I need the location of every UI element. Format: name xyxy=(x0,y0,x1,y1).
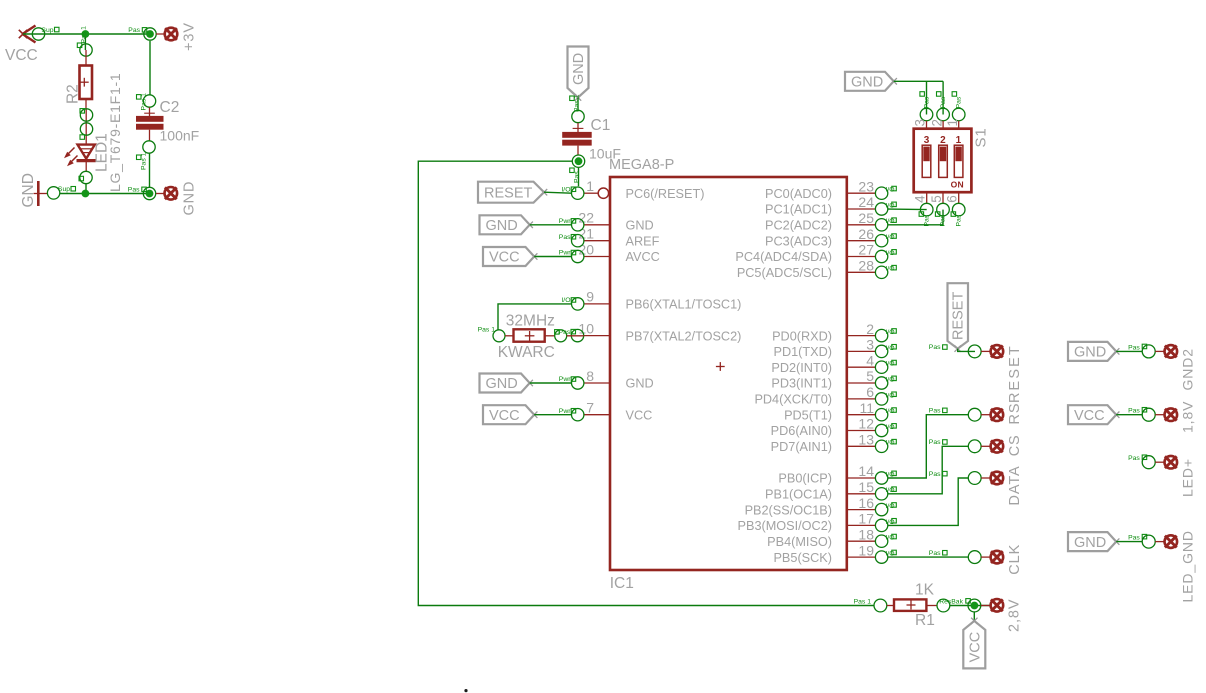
IC1 right pin 16 PB2(SS/OC1B) xyxy=(745,495,897,518)
svg-text:GND2: GND2 xyxy=(1180,348,1196,391)
svg-text:2: 2 xyxy=(866,321,874,337)
svg-text:Pas: Pas xyxy=(1128,535,1140,542)
svg-text:17: 17 xyxy=(858,511,874,527)
svg-text:22: 22 xyxy=(578,210,594,226)
svg-text:Pas: Pas xyxy=(924,96,931,108)
svg-text:2,8V: 2,8V xyxy=(1007,599,1023,632)
wire pin17 to DATA pad xyxy=(888,478,969,525)
svg-text:I/O: I/O xyxy=(886,187,895,194)
pin circle +3V pad xyxy=(128,27,156,40)
S1 label ON xyxy=(951,180,964,190)
svg-text:+3V: +3V xyxy=(181,22,197,51)
svg-text:RESET: RESET xyxy=(951,292,967,340)
wire VCC flag to pin20 xyxy=(534,256,571,258)
svg-text:Pas 1: Pas 1 xyxy=(854,598,872,605)
svg-text:27: 27 xyxy=(858,242,874,258)
net flag GND pin22 xyxy=(480,215,533,234)
svg-text:GND: GND xyxy=(626,219,654,233)
svg-text:I/O: I/O xyxy=(886,345,895,352)
IC origin cross xyxy=(716,362,725,371)
LED1 emission arrows xyxy=(64,148,78,167)
svg-text:PB3(MOSI/OC2): PB3(MOSI/OC2) xyxy=(738,519,832,533)
svg-text:Pwr: Pwr xyxy=(559,376,571,383)
svg-text:I/O: I/O xyxy=(886,392,895,399)
svg-text:C1: C1 xyxy=(591,117,611,134)
svg-text:23: 23 xyxy=(858,178,874,194)
svg-text:GND: GND xyxy=(486,218,518,234)
svg-text:VCC: VCC xyxy=(5,47,38,64)
wire GND to S1 pins xyxy=(894,81,943,114)
IC1 left pin 10 PB7(XTAL2/TOSC2) xyxy=(578,320,741,343)
label 10uF xyxy=(589,146,621,162)
svg-text:Pas: Pas xyxy=(1128,408,1140,415)
wire GND flag to pin22 xyxy=(530,224,572,226)
pad LED_GND xyxy=(1068,530,1196,602)
svg-text:15: 15 xyxy=(858,479,874,495)
S1 pin stubs bottom xyxy=(927,192,959,203)
S1 switch slider 2 xyxy=(939,145,948,177)
svg-text:1: 1 xyxy=(586,178,594,194)
svg-text:PC0(ADC0): PC0(ADC0) xyxy=(765,187,832,201)
svg-text:PD1(TXD): PD1(TXD) xyxy=(773,345,832,359)
pin circle R1 left xyxy=(854,598,887,612)
svg-text:Pas 1: Pas 1 xyxy=(81,26,88,44)
svg-text:KWARC: KWARC xyxy=(498,344,555,361)
IC1 right pin 3 PD1(TXD) xyxy=(773,337,896,360)
svg-text:5: 5 xyxy=(866,368,874,384)
svg-text:AVCC: AVCC xyxy=(626,250,660,264)
pad 1,8V xyxy=(1068,401,1196,433)
svg-text:2: 2 xyxy=(929,119,944,127)
svg-text:PB5(SCK): PB5(SCK) xyxy=(773,551,832,565)
svg-text:PB4(MISO): PB4(MISO) xyxy=(767,535,832,549)
pin circle pin10 xyxy=(559,329,584,342)
crystal Q1 KWARC 32MHz xyxy=(505,329,555,341)
node junction VCC bottom xyxy=(968,599,981,612)
label R1 xyxy=(915,612,935,629)
svg-text:R2: R2 xyxy=(65,84,82,104)
S1 pin stubs top xyxy=(927,121,959,129)
stray dot xyxy=(464,689,467,692)
svg-text:I/O: I/O xyxy=(561,297,570,304)
wire RESET flag to pad xyxy=(958,349,975,352)
svg-text:12: 12 xyxy=(858,416,874,432)
IC1 right pin 14 PB0(ICP) xyxy=(778,463,896,486)
svg-text:VCC: VCC xyxy=(489,250,520,266)
svg-text:PD2(INT0): PD2(INT0) xyxy=(771,361,832,375)
svg-text:VCC: VCC xyxy=(967,632,983,663)
svg-text:4: 4 xyxy=(913,195,928,203)
IC1 left pin circle row 7 xyxy=(561,297,583,310)
wire GND flag to C1 xyxy=(577,98,579,111)
label IC1 xyxy=(610,575,634,592)
IC1 left pin 20 AVCC xyxy=(578,241,659,264)
svg-text:Pas: Pas xyxy=(128,186,140,193)
svg-text:PD3(INT1): PD3(INT1) xyxy=(771,377,832,391)
IC1 left pin 7 VCC xyxy=(584,400,652,423)
svg-text:Pas: Pas xyxy=(559,234,571,241)
wire LED1 to bottom rail xyxy=(85,184,87,194)
S1 top pin circle 2 xyxy=(937,92,950,121)
IC1 right pin 5 PD3(INT1) xyxy=(771,368,896,391)
svg-text:Pas: Pas xyxy=(929,408,941,415)
svg-text:PC3(ADC3): PC3(ADC3) xyxy=(765,234,832,248)
pad RESET xyxy=(929,344,1023,403)
svg-text:Pas: Pas xyxy=(940,96,947,108)
IC1 left pin circle row 3 xyxy=(559,234,584,247)
label LG_T679-E1F1-1 xyxy=(107,73,123,192)
IC1 right pin 26 PC3(ADC3) xyxy=(765,226,896,249)
svg-text:Pwr: Pwr xyxy=(559,218,571,225)
S1 switch slider 1 xyxy=(954,145,963,177)
svg-text:28: 28 xyxy=(858,258,874,274)
LED LED1 xyxy=(77,145,96,172)
wire pin14 to RS pad xyxy=(888,415,969,478)
pin circle LED1 top xyxy=(80,123,93,140)
pin circle LED1 bottom xyxy=(79,171,92,183)
pin circle crystal right xyxy=(555,330,567,342)
svg-text:VCC: VCC xyxy=(1074,408,1105,424)
wire C1 junction to pin1 xyxy=(570,168,581,187)
wire pin25 to S1 pin5 xyxy=(888,210,943,225)
svg-text:Pas: Pas xyxy=(929,550,941,557)
IC1 right pin 4 PD2(INT0) xyxy=(771,352,896,375)
label VCC xyxy=(5,47,38,64)
IC1 left pin 8 GND xyxy=(584,368,654,391)
svg-text:Pas 1: Pas 1 xyxy=(478,327,496,334)
resistor R2 xyxy=(80,50,93,109)
S1 top pin circle 1 xyxy=(952,92,965,121)
svg-text:I/O: I/O xyxy=(886,329,895,336)
svg-text:PC4(ADC4/SDA): PC4(ADC4/SDA) xyxy=(735,250,832,264)
net flag VCC bottom xyxy=(963,618,985,669)
IC IC1 MEGA8-P box xyxy=(610,177,847,570)
svg-text:21: 21 xyxy=(578,226,594,242)
svg-text:3: 3 xyxy=(924,135,930,146)
svg-text:Pas: Pas xyxy=(1128,455,1140,462)
svg-text:7: 7 xyxy=(586,400,594,416)
svg-text:LG_T679-E1F1-1: LG_T679-E1F1-1 xyxy=(107,73,123,192)
IC1 right pin 23 PC0(ADC0) xyxy=(765,178,896,201)
pad GND left xyxy=(156,187,177,200)
svg-text:VCC: VCC xyxy=(489,408,520,424)
svg-text:10: 10 xyxy=(578,320,594,336)
svg-text:Pas: Pas xyxy=(956,96,963,108)
IC1 left pin 21 AREF xyxy=(578,226,659,249)
svg-text:4: 4 xyxy=(866,352,874,368)
node junction C1 xyxy=(572,155,584,167)
svg-text:GND: GND xyxy=(851,75,883,91)
svg-text:19: 19 xyxy=(858,542,874,558)
svg-text:PB1(OC1A): PB1(OC1A) xyxy=(765,488,832,502)
svg-text:CS: CS xyxy=(1007,434,1023,456)
wire R1 to pad 2.8V xyxy=(950,605,990,607)
supply arrow VCC xyxy=(19,26,36,43)
svg-text:Pas 1: Pas 1 xyxy=(141,152,148,170)
svg-text:PD0(RXD): PD0(RXD) xyxy=(772,329,832,343)
S1 bottom pin numbers xyxy=(913,195,960,203)
svg-text:9: 9 xyxy=(586,289,594,305)
wire RESET to pin1 xyxy=(544,192,572,193)
svg-text:I/O: I/O xyxy=(886,250,895,257)
svg-text:GND: GND xyxy=(181,181,197,216)
capacitor C2 xyxy=(136,41,164,188)
svg-text:5: 5 xyxy=(929,195,944,203)
capacitor C1 xyxy=(562,123,592,155)
net flag GND S1 xyxy=(845,72,897,91)
wire VCC rail xyxy=(23,33,150,35)
svg-text:2: 2 xyxy=(940,135,946,146)
svg-text:LED_GND: LED_GND xyxy=(1180,530,1196,602)
label S1 xyxy=(973,127,990,147)
svg-text:IC1: IC1 xyxy=(610,575,634,592)
pin circle C1 top xyxy=(570,94,585,122)
IC1 right pin 19 PB5(SCK) xyxy=(773,542,896,565)
IC1 left pin circle row 14 xyxy=(559,408,584,421)
svg-text:I/O: I/O xyxy=(886,376,895,383)
pin circle R1 right xyxy=(937,598,970,612)
svg-text:I/O: I/O xyxy=(886,440,895,447)
svg-text:ON: ON xyxy=(951,180,964,190)
net flag RESET left xyxy=(478,182,547,203)
svg-text:RESET: RESET xyxy=(484,185,532,201)
svg-text:3: 3 xyxy=(866,337,874,353)
label 1K xyxy=(915,582,935,599)
svg-text:Pas: Pas xyxy=(955,214,962,226)
wire crystal to pin10 xyxy=(567,335,584,337)
wire long left-bottom xyxy=(418,161,873,605)
pin circle VCC arrow xyxy=(32,27,59,40)
pad 2.8V xyxy=(981,599,1003,612)
C2 pin labels xyxy=(137,93,148,170)
svg-text:RS: RS xyxy=(1007,403,1023,425)
svg-text:I/O: I/O xyxy=(886,408,895,415)
svg-text:1,8V: 1,8V xyxy=(1180,401,1196,433)
pin circle GND pad left xyxy=(128,186,156,199)
svg-text:PD7(AIN1): PD7(AIN1) xyxy=(771,440,832,454)
svg-text:16: 16 xyxy=(858,495,874,511)
svg-text:VCC: VCC xyxy=(626,408,653,422)
label GND left xyxy=(20,173,37,207)
wire junction to R2 xyxy=(84,37,86,50)
svg-text:I/O: I/O xyxy=(886,535,895,542)
IC1 right pin 27 PC4(ADC4/SDA) xyxy=(735,242,896,265)
pin circle GND left xyxy=(47,186,75,199)
svg-text:Pwr: Pwr xyxy=(559,250,571,257)
svg-text:GND: GND xyxy=(1074,535,1106,551)
svg-text:I/O: I/O xyxy=(886,503,895,510)
node junction B bottom xyxy=(82,190,90,198)
label +3V xyxy=(181,22,197,51)
svg-text:20: 20 xyxy=(578,241,594,257)
svg-text:25: 25 xyxy=(858,210,874,226)
pad CS xyxy=(929,434,1023,456)
IC1 right pin 17 PB3(MOSI/OC2) xyxy=(738,511,897,534)
svg-text:3: 3 xyxy=(913,119,928,127)
IC1 right pin 28 PC5(ADC5/SCL) xyxy=(737,258,896,281)
label GND pad left xyxy=(181,181,197,216)
svg-text:GND: GND xyxy=(486,376,518,392)
svg-text:Pas: Pas xyxy=(929,344,941,351)
IC1 right pin 12 PD6(AIN0) xyxy=(771,416,897,439)
S1 digits xyxy=(924,135,962,146)
svg-text:100nF: 100nF xyxy=(160,128,200,144)
wire pin15 to CS pad xyxy=(888,446,969,494)
svg-text:Sup: Sup xyxy=(41,27,53,34)
label R2 xyxy=(65,84,82,104)
wire bottom rail xyxy=(60,193,150,195)
IC1 right pin 11 PD5(T1) xyxy=(784,400,896,423)
wire pin24 to S1 pin4 xyxy=(888,208,927,211)
pin circle crystal left xyxy=(478,327,505,342)
svg-text:PC1(ADC1): PC1(ADC1) xyxy=(765,203,832,217)
label C2 xyxy=(160,99,180,116)
S1 top pin numbers xyxy=(913,119,960,127)
svg-text:6: 6 xyxy=(866,384,874,400)
S1 bottom pin circle 4 xyxy=(919,203,933,226)
svg-text:Pwr: Pwr xyxy=(559,408,571,415)
svg-text:AREF: AREF xyxy=(626,234,660,248)
net flag VCC pin20 xyxy=(483,247,537,266)
svg-text:14: 14 xyxy=(858,463,874,479)
pad RS xyxy=(929,403,1023,425)
IC1 left pin circle row 12 xyxy=(559,376,584,389)
svg-text:GND: GND xyxy=(571,53,587,85)
svg-text:PC5(ADC5/SCL): PC5(ADC5/SCL) xyxy=(737,266,832,280)
svg-text:R1: R1 xyxy=(915,612,935,629)
svg-text:PB6(XTAL1/TOSC1): PB6(XTAL1/TOSC1) xyxy=(626,298,742,312)
pin circle R2 top xyxy=(77,26,92,56)
pin circle R2 bottom xyxy=(80,109,93,122)
wire VCC flag to pin7 xyxy=(534,414,571,416)
label C1 xyxy=(591,117,611,134)
svg-text:PC6(/RESET): PC6(/RESET) xyxy=(626,187,705,201)
svg-text:Sup: Sup xyxy=(58,186,70,193)
label 2.8V xyxy=(1007,599,1023,632)
pad LED+ xyxy=(1128,455,1196,497)
wire GND flag to pin8 xyxy=(530,382,572,384)
label MEGA8-P xyxy=(609,157,674,173)
svg-text:GND: GND xyxy=(626,377,654,391)
pad CLK xyxy=(929,544,1023,575)
IC1 right pin 24 PC1(ADC1) xyxy=(765,194,896,217)
IC1 left pin 22 GND xyxy=(578,210,653,233)
pad DATA xyxy=(929,465,1023,505)
svg-text:PB7(XTAL2/TOSC2): PB7(XTAL2/TOSC2) xyxy=(626,329,742,343)
svg-text:8: 8 xyxy=(586,368,594,384)
svg-text:I/O: I/O xyxy=(886,424,895,431)
IC1 left pin circle row 4 xyxy=(559,250,584,263)
S1 bottom pin circle 6 xyxy=(951,203,965,226)
IC1 left pin circle row 2 xyxy=(559,218,584,231)
svg-text:S1: S1 xyxy=(973,127,990,147)
svg-text:Pas: Pas xyxy=(559,329,571,336)
IC1 left pin 9 PB6(XTAL1/TOSC1) xyxy=(584,289,741,312)
svg-text:32MHz: 32MHz xyxy=(506,312,555,329)
svg-text:GND: GND xyxy=(1074,345,1106,361)
IC1 left pin circle row 0 xyxy=(561,186,583,199)
svg-text:MEGA8-P: MEGA8-P xyxy=(609,157,674,173)
wire R2 to LED1 xyxy=(85,109,87,145)
svg-text:RESET: RESET xyxy=(1007,344,1023,403)
svg-text:1K: 1K xyxy=(915,582,935,599)
pad +3V xyxy=(156,28,177,41)
net flag GND pin8 xyxy=(480,374,533,393)
svg-text:I/O: I/O xyxy=(886,234,895,241)
svg-text:CLK: CLK xyxy=(1007,544,1023,575)
label 32MHz xyxy=(506,312,555,329)
svg-text:PD6(AIN0): PD6(AIN0) xyxy=(771,424,832,438)
svg-text:ResBak: ResBak xyxy=(939,598,963,605)
node junction A top xyxy=(82,30,90,38)
svg-text:13: 13 xyxy=(858,432,874,448)
svg-text:Pas: Pas xyxy=(929,439,941,446)
svg-text:Pas: Pas xyxy=(929,471,941,478)
label LED1 xyxy=(94,133,111,172)
IC1 right pin 18 PB4(MISO) xyxy=(767,526,896,549)
resistor R1 xyxy=(887,599,937,611)
IC1 right pin 15 PB1(OC1A) xyxy=(765,479,896,502)
svg-text:1: 1 xyxy=(956,135,962,146)
svg-text:PC2(ADC2): PC2(ADC2) xyxy=(765,219,832,233)
ground symbol GND left xyxy=(34,181,49,206)
svg-text:26: 26 xyxy=(858,226,874,242)
svg-text:PD5(T1): PD5(T1) xyxy=(784,408,832,422)
net flag RESET right xyxy=(948,283,969,352)
S1 switch slider 3 xyxy=(922,145,931,177)
svg-text:GND: GND xyxy=(20,173,37,207)
svg-text:DATA: DATA xyxy=(1007,465,1023,505)
net flag GND top xyxy=(568,47,589,101)
IC1 right pin 6 PD4(XCK/T0) xyxy=(754,384,896,407)
svg-text:PB2(SS/OC1B): PB2(SS/OC1B) xyxy=(745,503,832,517)
svg-text:6: 6 xyxy=(945,195,960,203)
svg-text:PD4(XCK/T0): PD4(XCK/T0) xyxy=(754,393,832,407)
svg-text:I/O: I/O xyxy=(886,361,895,368)
wire pin19 to CLK pad xyxy=(888,556,969,558)
label KWARC xyxy=(498,344,555,361)
IC1 left pin 1 PC6(/RESET) xyxy=(584,178,705,201)
switch S1 box xyxy=(914,129,972,193)
S1 top pin circle 3 xyxy=(920,92,933,121)
svg-text:PB0(ICP): PB0(ICP) xyxy=(778,472,832,486)
svg-text:18: 18 xyxy=(858,526,874,542)
wire junction to VCC flag xyxy=(973,612,975,622)
wire pin9 to crystal xyxy=(498,304,572,330)
pad GND2 xyxy=(1068,342,1196,391)
svg-text:C2: C2 xyxy=(160,99,180,116)
IC1 right pin 13 PD7(AIN1) xyxy=(771,432,897,455)
svg-text:Pas: Pas xyxy=(1128,344,1140,351)
svg-text:1: 1 xyxy=(945,119,960,127)
svg-text:Pas: Pas xyxy=(128,27,140,34)
IC1 right pin 2 PD0(RXD) xyxy=(772,321,896,344)
S1 bottom pin circle 5 xyxy=(935,203,949,226)
label 100nF xyxy=(160,128,200,144)
svg-text:11: 11 xyxy=(859,400,874,416)
IC1 right pin 25 PC2(ADC2) xyxy=(765,210,896,233)
net flag VCC pin7 xyxy=(483,405,537,424)
svg-text:Pas 1: Pas 1 xyxy=(141,93,148,111)
svg-text:LED+: LED+ xyxy=(1180,458,1196,497)
svg-text:24: 24 xyxy=(858,194,874,210)
svg-text:I/O: I/O xyxy=(886,266,895,273)
